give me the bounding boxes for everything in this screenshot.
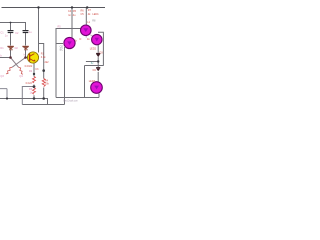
svg-text:2k2: 2k2: [45, 61, 50, 64]
svg-text:0.0022: 0.0022: [25, 65, 33, 68]
svg-text:LED3: LED3: [89, 80, 96, 83]
svg-text:3.3k: 3.3k: [41, 56, 46, 59]
svg-text:BC: BC: [60, 48, 64, 51]
svg-text:ElecCircuit.com: ElecCircuit.com: [63, 99, 78, 103]
svg-text:LED2: LED2: [90, 48, 97, 51]
svg-text:D: D: [80, 38, 82, 41]
svg-text:0.022: 0.022: [26, 82, 33, 85]
svg-text:LED1: LED1: [92, 13, 99, 16]
